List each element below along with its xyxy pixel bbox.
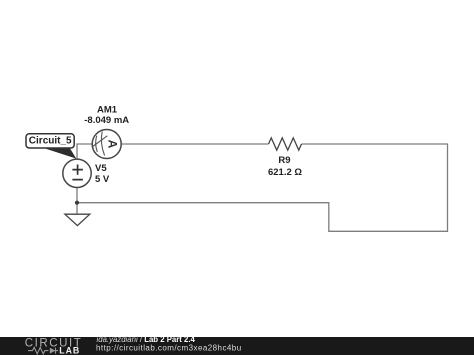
wire V5 bottom through node A to ground [76,188,78,215]
wire resistor right around loop to node A [77,144,448,231]
ammeter AM1 [92,130,121,159]
svg-text:AM1: AM1 [97,104,118,115]
resistor R9 [269,138,302,150]
node label Circuit_5 box [26,134,74,148]
voltage source V5 [63,159,91,187]
svg-text:V5: V5 [95,163,107,174]
svg-text:Circuit_5: Circuit_5 [29,136,72,147]
svg-text:A: A [106,140,120,149]
svg-text:http://circuitlab.com/cm3xea28: http://circuitlab.com/cm3xea28hc4bu [96,343,242,352]
node A junction dot [75,201,79,205]
ground [65,214,90,225]
V5 value labels [95,163,110,185]
svg-text:R9: R9 [278,155,290,166]
wire V5 top to ammeter left [77,144,92,159]
node label Circuit_5 callout pointer [46,148,77,159]
svg-text:5 V: 5 V [95,174,110,185]
footer bar [0,337,474,355]
wire ammeter right to resistor left [121,143,268,145]
AM1 labels [84,104,129,126]
svg-text:LAB: LAB [59,345,80,355]
footer logo diode triangle [50,348,56,354]
footer logo resistor-diode squiggle [28,347,58,353]
svg-text:-8.049 mA: -8.049 mA [84,115,129,126]
svg-text:621.2 Ω: 621.2 Ω [268,167,302,178]
R9 labels [268,155,302,178]
